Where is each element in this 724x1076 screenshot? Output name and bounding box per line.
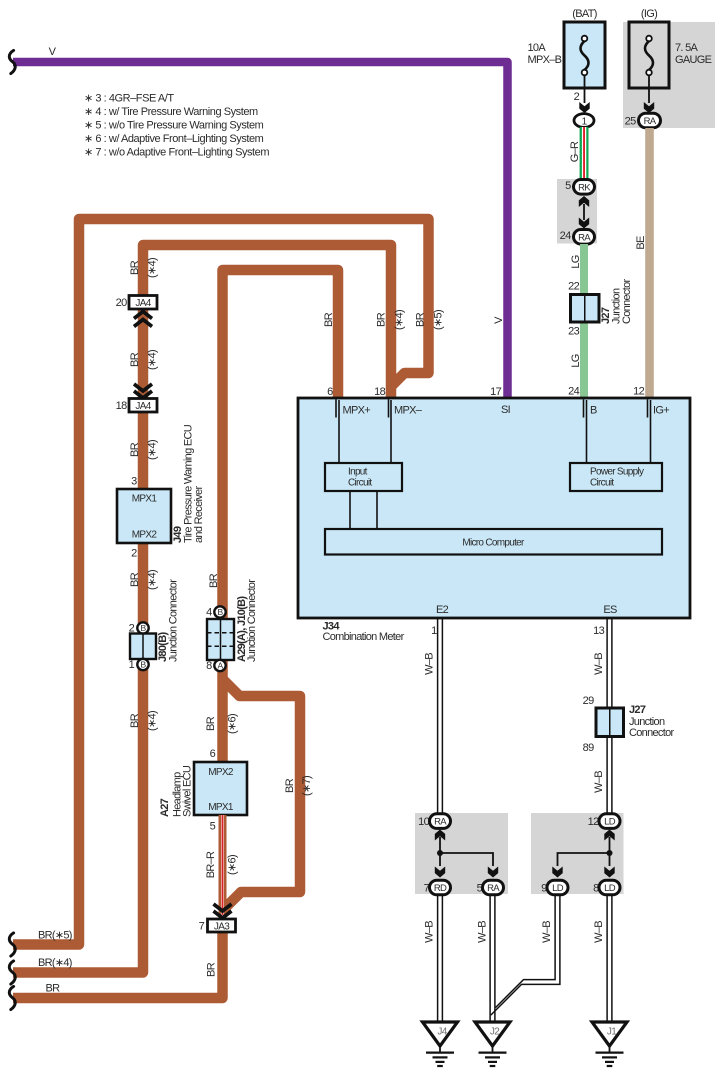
svg-text:BE: BE: [635, 236, 647, 250]
junction node (LD): [607, 850, 613, 856]
svg-text:∗ 3 : 4GR–FSE A/T: ∗ 3 : 4GR–FSE A/T: [84, 93, 174, 105]
wire from fuse BAT to connector 1: [584, 75, 586, 103]
svg-text:(∗4): (∗4): [394, 310, 406, 330]
wire BR (*7): bypass around A27: [223, 679, 301, 910]
connector arrow down into terminal 1: [579, 102, 589, 113]
svg-text:W–B: W–B: [593, 771, 605, 793]
wire BR: JA3 to bottom-left row: [13, 930, 223, 998]
svg-text:∗ 4 : w/ Tire Pressure Warning: ∗ 4 : w/ Tire Pressure Warning System: [84, 106, 258, 118]
svg-text:W–B: W–B: [593, 921, 605, 943]
junction connector A29(A),J10(B) top terminal B: [214, 606, 225, 617]
grey service-box around RK/RA connectors (BAT branch): [557, 179, 597, 244]
svg-text:5: 5: [210, 821, 216, 833]
svg-text:17: 17: [490, 386, 501, 398]
svg-text:2: 2: [131, 548, 137, 560]
connector arrows down into JA3: [214, 904, 232, 911]
wire W-B from RD-7 to ground J4: [437, 895, 439, 1022]
fuse 7.5A GAUGE body: [629, 22, 669, 88]
wire BR (*4): bottom-left row, JA4/J49/J80 vertical, 2nd top row, pin 18 drop: [13, 245, 391, 973]
internal wire B to power supply circuit: [586, 400, 588, 463]
connector arrow down toward RA-24: [579, 218, 589, 229]
svg-text:Junction Connector: Junction Connector: [168, 579, 180, 662]
continuation squiggle BR: [9, 986, 15, 1009]
svg-text:24: 24: [560, 230, 571, 242]
svg-text:Power Supply: Power Supply: [590, 467, 644, 478]
combination meter J34 body: [298, 398, 690, 618]
terminal RK: [574, 180, 595, 195]
svg-text:(∗6): (∗6): [227, 855, 239, 875]
pin divider MPX+: [335, 400, 337, 418]
svg-text:Connector: Connector: [629, 727, 674, 739]
wire W-B from LD-9 joining J2 wire: [496, 895, 556, 1008]
connector arrow down toward RA-25: [644, 102, 654, 113]
internal wires input circuit to micro computer: [349, 491, 351, 529]
svg-text:6: 6: [327, 386, 333, 398]
svg-text:7. 5A: 7. 5A: [675, 42, 699, 54]
wire RA-10 to junction: [439, 837, 441, 866]
svg-text:22: 22: [568, 281, 579, 293]
svg-text:ES: ES: [603, 604, 617, 616]
svg-text:SI: SI: [501, 404, 511, 416]
svg-text:Combination Meter: Combination Meter: [323, 631, 405, 643]
svg-text:RK: RK: [578, 182, 591, 193]
svg-text:24: 24: [568, 386, 579, 398]
micro computer block: [325, 529, 662, 555]
svg-text:BR: BR: [284, 778, 296, 793]
junction connector J80(B) top terminal B: [137, 622, 148, 633]
svg-text:(∗4): (∗4): [147, 711, 159, 731]
terminal LD (8): [599, 880, 620, 895]
connector arrow down toward LD-9: [552, 867, 562, 878]
connector JA3: [208, 919, 236, 932]
svg-text:MPX2: MPX2: [132, 530, 158, 541]
continuation squiggle BR(*4): [9, 961, 15, 984]
svg-text:∗ 5 : w/o Tire Pressure Warnin: ∗ 5 : w/o Tire Pressure Warning System: [84, 120, 264, 132]
wire BR (*5): bottom-left row, outer-left vertical, top row, drop to pin 18: [13, 219, 429, 945]
svg-text:(∗5): (∗5): [433, 310, 445, 330]
svg-text:4: 4: [206, 607, 212, 619]
connector arrow up toward RK: [579, 196, 589, 207]
svg-text:W–B: W–B: [424, 653, 436, 675]
svg-text:7: 7: [199, 921, 205, 933]
wire G-R from terminal 1 to RK: [580, 127, 589, 180]
terminal RA (10): [430, 814, 451, 829]
svg-text:29: 29: [583, 695, 594, 707]
wire from fuse IG to RA-25: [648, 75, 650, 103]
svg-text:RA: RA: [578, 232, 591, 243]
svg-text:13: 13: [593, 625, 604, 637]
svg-text:BR(∗4): BR(∗4): [38, 957, 72, 969]
wire between RK and RA: [583, 204, 585, 220]
wire W-B from E2 to RA-10: [437, 618, 439, 814]
internal wire IG+ to power supply circuit: [650, 400, 652, 463]
wire V (purple) from left edge to J34 pin SI: [13, 62, 508, 398]
svg-text:(∗7): (∗7): [301, 776, 313, 796]
svg-text:(∗4): (∗4): [147, 570, 159, 590]
svg-text:BR: BR: [206, 962, 218, 977]
svg-text:BR: BR: [415, 312, 427, 327]
svg-text:5: 5: [565, 180, 571, 192]
ground J4: [423, 1022, 458, 1066]
svg-text:MPX+: MPX+: [343, 405, 371, 417]
svg-text:(IG): (IG): [641, 8, 657, 20]
svg-text:W–B: W–B: [477, 921, 489, 943]
fuse 10A MPX-B body: [564, 22, 605, 88]
svg-text:BR: BR: [129, 352, 141, 367]
svg-text:BR: BR: [205, 716, 217, 731]
wire W-B from ES to J27: [606, 618, 608, 709]
svg-text:W–B: W–B: [541, 921, 553, 943]
svg-text:JA4: JA4: [135, 401, 151, 412]
svg-text:Connector: Connector: [621, 279, 633, 324]
ECU A27 Headlamp Swivel ECU: [194, 762, 247, 815]
svg-text:Junction Connector: Junction Connector: [246, 579, 258, 662]
svg-text:Input: Input: [348, 467, 368, 478]
svg-text:RA: RA: [434, 817, 447, 828]
junction connector A29(A),J10(B) body: [207, 619, 234, 660]
svg-text:JA4: JA4: [135, 298, 151, 309]
svg-text:Circuit: Circuit: [348, 478, 372, 489]
svg-text:BR: BR: [46, 983, 61, 995]
continuation squiggle BR(*5): [9, 933, 15, 956]
terminal oval 1: [574, 114, 594, 128]
svg-text:RD: RD: [434, 883, 447, 894]
svg-text:18: 18: [374, 386, 385, 398]
svg-text:LD: LD: [604, 817, 616, 828]
svg-text:IG+: IG+: [653, 405, 669, 417]
connector arrow down toward LD-8: [604, 867, 614, 878]
terminal LD (9): [547, 880, 568, 895]
svg-text:25: 25: [625, 116, 636, 128]
connector arrow up toward RA-10: [435, 830, 445, 841]
connector arrow up toward LD-12: [604, 830, 614, 841]
junction connector J80(B) body: [130, 634, 156, 660]
junction node: [437, 850, 443, 856]
svg-text:BR(∗5): BR(∗5): [38, 930, 72, 942]
svg-text:20: 20: [116, 297, 127, 309]
pin divider IG+: [647, 400, 649, 418]
svg-text:A27: A27: [159, 798, 171, 817]
connector arrows down into JA4-18: [134, 384, 152, 391]
svg-text:6: 6: [210, 748, 216, 760]
continuation squiggle on wire V: [9, 50, 15, 73]
svg-text:(∗6): (∗6): [227, 714, 239, 734]
svg-text:1: 1: [431, 625, 437, 637]
wire junction to RA-5 branch: [440, 853, 493, 866]
svg-text:B: B: [590, 405, 597, 417]
svg-text:BR–R: BR–R: [205, 851, 217, 878]
svg-text:J1: J1: [607, 1027, 617, 1038]
svg-text:10: 10: [418, 816, 429, 828]
svg-text:∗ 7 : w/o Adaptive Front–Light: ∗ 7 : w/o Adaptive Front–Lighting System: [84, 146, 269, 158]
svg-text:G–R: G–R: [569, 141, 581, 162]
svg-text:Micro Computer: Micro Computer: [462, 538, 525, 549]
terminal LD (12): [599, 814, 620, 829]
svg-text:MPX–: MPX–: [394, 405, 423, 417]
connector JA4 (pin 18): [129, 399, 157, 413]
internal wire MPX- to input circuit: [390, 400, 392, 463]
note list: [84, 93, 269, 159]
svg-text:(∗4): (∗4): [147, 440, 159, 460]
svg-text:2: 2: [574, 91, 580, 103]
internal wire MPX+ to input circuit: [338, 400, 340, 463]
svg-text:J4: J4: [437, 1027, 447, 1038]
power supply circuit block: [570, 463, 662, 491]
svg-text:12: 12: [633, 386, 644, 398]
terminal RA (24): [574, 230, 595, 245]
svg-text:23: 23: [568, 326, 579, 338]
svg-text:LG: LG: [570, 354, 582, 367]
wire W-B from RA-5 to ground J2: [489, 895, 491, 1022]
svg-text:BR: BR: [129, 572, 141, 587]
svg-text:GAUGE: GAUGE: [675, 54, 712, 66]
svg-text:E2: E2: [436, 604, 449, 616]
svg-text:3: 3: [131, 476, 137, 488]
svg-text:10A: 10A: [528, 42, 547, 54]
connector arrow down toward RA-5: [488, 867, 498, 878]
svg-text:1: 1: [129, 659, 135, 671]
ground J1: [592, 1022, 627, 1066]
grey service-box around LD ground connectors (right): [531, 813, 624, 894]
svg-text:RA: RA: [644, 116, 657, 127]
svg-text:8: 8: [206, 660, 212, 672]
svg-text:BR: BR: [323, 312, 335, 327]
svg-text:and Receiver: and Receiver: [193, 486, 205, 543]
input circuit block: [325, 463, 402, 491]
svg-text:∗ 6 : w/ Adaptive Front–Lighti: ∗ 6 : w/ Adaptive Front–Lighting System: [84, 133, 264, 145]
wire LD-12 to junction: [609, 837, 611, 866]
svg-text:JA3: JA3: [214, 922, 230, 933]
wire W-B from J27 to LD-12: [606, 737, 608, 815]
svg-text:W–B: W–B: [593, 653, 605, 675]
svg-text:BR: BR: [208, 573, 220, 588]
wire LG from RA-24 to J34 pin B: [580, 244, 588, 398]
ECU J49 Tire Pressure Warning ECU and Receiver: [117, 489, 171, 543]
svg-text:MPX1: MPX1: [132, 494, 158, 505]
junction connector A29(A),J10(B) bottom terminal A: [214, 660, 225, 671]
wire junction to LD-9 branch: [558, 853, 610, 866]
svg-text:LG: LG: [570, 255, 582, 268]
wire BE from RA-25 to J34 pin IG+: [645, 128, 654, 398]
svg-text:(BAT): (BAT): [572, 8, 596, 20]
terminal RD (7): [430, 880, 451, 895]
pin divider MPX-: [388, 400, 390, 418]
wire BR: 3rd top row from A29 chain to J34 pin 6: [223, 270, 339, 762]
svg-text:18: 18: [116, 400, 127, 412]
svg-text:BR: BR: [376, 312, 388, 327]
junction connector J27 (LG): [571, 295, 600, 323]
grey service-box around IG fuse: [623, 22, 715, 128]
svg-text:MPX1: MPX1: [208, 802, 234, 813]
terminal RA (25): [639, 113, 661, 128]
svg-text:(∗4): (∗4): [147, 258, 159, 278]
svg-text:89: 89: [583, 742, 594, 754]
svg-text:MPX–B: MPX–B: [528, 54, 562, 66]
svg-text:Swivel ECU: Swivel ECU: [182, 765, 194, 817]
grey service-box around RA/RD ground connectors (left): [415, 813, 508, 894]
terminal RA (5): [483, 880, 504, 895]
svg-text:12: 12: [588, 816, 599, 828]
svg-text:J2: J2: [490, 1027, 500, 1038]
junction connector J27 (W-B): [596, 708, 624, 737]
ground J2: [475, 1022, 510, 1066]
svg-text:LD: LD: [604, 883, 616, 894]
svg-text:Circuit: Circuit: [590, 478, 614, 489]
svg-text:J27: J27: [629, 704, 646, 716]
connector arrow down toward RD-7: [435, 867, 445, 878]
svg-text:MPX2: MPX2: [208, 767, 234, 778]
svg-text:RA: RA: [487, 883, 500, 894]
junction connector J80(B) bottom terminal B: [137, 659, 148, 670]
connector arrows up into JA4-20: [134, 312, 152, 319]
pin divider B: [583, 400, 585, 418]
svg-text:W–B: W–B: [424, 921, 436, 943]
svg-text:BR: BR: [129, 442, 141, 457]
svg-text:(∗4): (∗4): [147, 350, 159, 370]
svg-text:BR: BR: [129, 713, 141, 728]
wire W-B from LD-8 to ground J1: [606, 895, 608, 1022]
svg-text:LD: LD: [552, 883, 564, 894]
wire BR-R from A27 pin 5 to JA3: [219, 815, 227, 915]
svg-text:BR: BR: [129, 260, 141, 275]
connector JA4 (pin 20): [129, 296, 157, 310]
